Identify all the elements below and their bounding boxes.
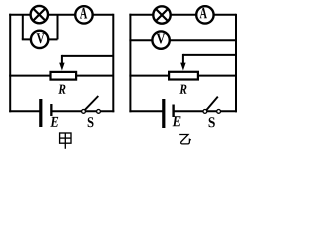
rheostat slider arrowhead (circuit 1)	[59, 63, 64, 71]
wire: circuit 2 bottom right (battery to switch to corner)	[174, 110, 237, 112]
switch S (circuit 2) left contact	[203, 110, 207, 114]
voltmeter V (circuit 1)	[31, 31, 48, 48]
wire: circuit 2 slider arrow stem	[182, 54, 184, 64]
ammeter A (circuit 2)	[196, 6, 213, 23]
battery E (circuit 2) short plate	[172, 105, 174, 118]
lamp (circuit 1)	[31, 6, 48, 23]
wire: circuit 2 slider tap to right vertical	[183, 54, 236, 56]
voltmeter V (circuit 2)	[152, 31, 169, 48]
wire: rheostat slider arrow stem	[61, 55, 63, 64]
rheostat R body (circuit 1)	[51, 72, 77, 80]
wire: circuit 2 right vertical	[235, 14, 237, 113]
wire: circuit 1 top	[9, 14, 113, 16]
wire: circuit 2 left vertical	[129, 14, 131, 113]
label S (circuit 2)	[209, 117, 215, 127]
lamp (circuit 2)	[153, 6, 170, 23]
switch S (circuit 1) right contact	[97, 110, 101, 114]
label 甲 (circuit 1 caption, drawn strokes)	[60, 133, 71, 149]
wire: rheostat slider tap to right vertical	[62, 55, 113, 57]
label R (circuit 2)	[179, 85, 186, 94]
switch S (circuit 2) lever	[206, 97, 218, 111]
label S (circuit 1)	[88, 117, 94, 127]
label R (circuit 1)	[58, 85, 65, 94]
wire: circuit 2 top	[129, 14, 236, 16]
ammeter A (circuit 1)	[75, 6, 92, 23]
wire: circuit 1 right vertical	[112, 14, 114, 113]
wire: voltmeter branch right leg	[57, 15, 59, 40]
rheostat slider arrowhead (circuit 2)	[180, 63, 185, 71]
label E (circuit 1)	[50, 117, 58, 127]
rheostat R body (circuit 2)	[169, 72, 198, 80]
wire: circuit 2 resistor row	[129, 75, 236, 77]
wire: voltmeter branch bottom	[22, 38, 58, 40]
label E (circuit 2)	[173, 116, 181, 126]
wire: circuit 1 bottom left (to battery)	[9, 110, 40, 112]
battery E (circuit 1) long plate	[39, 99, 42, 127]
switch S (circuit 2) right contact	[217, 110, 221, 114]
wire: circuit 2 bottom left (to battery)	[129, 110, 163, 112]
label 乙 (circuit 2 caption, drawn strokes)	[179, 135, 191, 144]
wire: circuit 1 resistor row	[9, 75, 113, 77]
battery E (circuit 2) long plate	[162, 99, 165, 128]
switch S (circuit 1) lever	[85, 96, 99, 110]
wire: voltmeter branch left leg	[22, 15, 24, 40]
wire: circuit 1 left vertical	[9, 14, 11, 113]
switch S (circuit 1) left contact	[82, 110, 86, 114]
battery E (circuit 1) short plate	[50, 104, 52, 116]
wire: circuit 2 voltmeter row	[129, 39, 236, 41]
wire: circuit 1 bottom right (battery to switch to corner)	[52, 110, 115, 112]
